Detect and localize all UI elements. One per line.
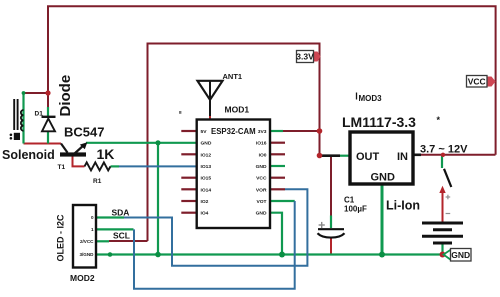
svg-text:5V: 5V [201,129,208,135]
svg-text:IO16: IO16 [256,141,267,147]
svg-text:1K: 1K [97,146,115,162]
svg-text:R1: R1 [93,178,102,185]
svg-text:IO2: IO2 [201,199,209,205]
svg-text:Diode: Diode [57,75,74,117]
svg-text:SDA: SDA [112,207,130,217]
svg-text:MOD3: MOD3 [359,94,383,103]
svg-text:*: * [437,115,441,125]
svg-text:GND: GND [371,172,396,184]
svg-text:0: 0 [91,215,94,220]
svg-text:3/GND: 3/GND [79,252,94,257]
svg-text:GND: GND [451,250,470,260]
svg-text:IO0: IO0 [259,152,267,158]
svg-text:IO15: IO15 [201,176,212,182]
svg-text:Solenoid: Solenoid [2,148,55,162]
svg-text:100µF: 100µF [344,205,367,214]
svg-text:BC547: BC547 [64,125,104,140]
svg-text:GND: GND [256,211,267,217]
svg-text:IO12: IO12 [201,152,212,158]
svg-text:D1: D1 [35,110,44,117]
svg-text:3.7 ~ 12V: 3.7 ~ 12V [420,144,468,156]
svg-text:LM1117-3.3: LM1117-3.3 [342,114,416,130]
svg-text:ESP32-CAM: ESP32-CAM [211,127,256,136]
svg-text:Li-Ion: Li-Ion [386,199,420,213]
svg-text:T1: T1 [58,164,66,171]
svg-text:IN: IN [397,151,408,163]
svg-text:OLED - I2C: OLED - I2C [56,214,66,262]
svg-text:C1: C1 [344,196,355,205]
svg-text:3.3V: 3.3V [296,52,314,62]
svg-text:IO4: IO4 [201,211,209,217]
svg-text:2/VCC: 2/VCC [80,239,94,244]
svg-text:SCL: SCL [113,231,130,241]
svg-text:VCC: VCC [468,77,486,87]
svg-text:VCC: VCC [256,176,267,182]
svg-text:GND: GND [256,164,267,170]
svg-text:GND: GND [201,141,212,147]
svg-text:MOD1: MOD1 [225,105,250,115]
svg-text:1: 1 [91,227,94,232]
svg-text:OUT: OUT [356,151,380,163]
svg-text:IO13: IO13 [201,164,212,170]
svg-text:ANT1: ANT1 [223,72,243,81]
svg-text:MOD2: MOD2 [70,273,95,283]
svg-text:VOT: VOT [256,199,266,205]
svg-text:3V3: 3V3 [258,129,267,135]
svg-text:VOR: VOR [256,187,267,193]
svg-text:IO14: IO14 [201,187,212,193]
